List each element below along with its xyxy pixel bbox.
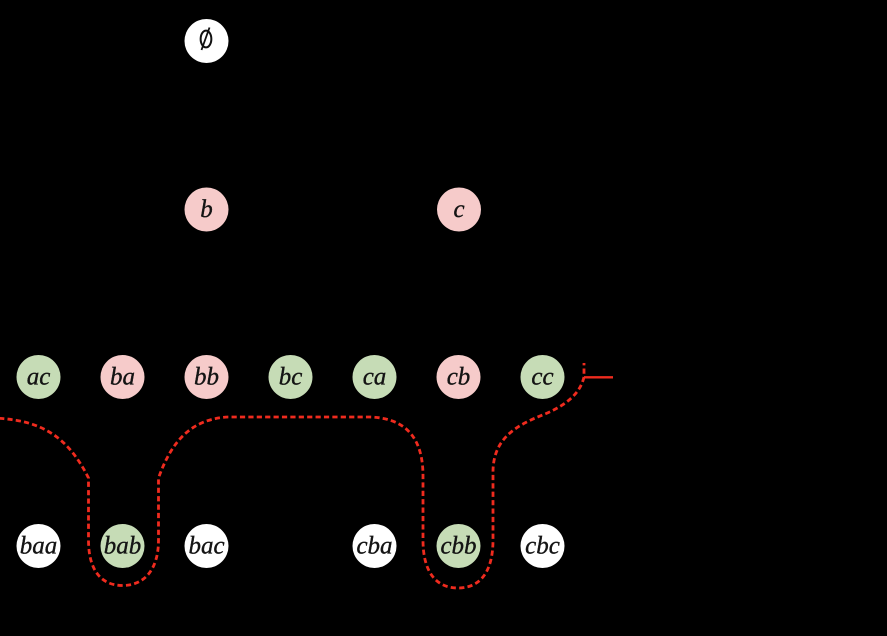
node cb: [437, 355, 481, 399]
node bc: [269, 355, 313, 399]
node cbc: [521, 524, 565, 568]
node cbb: [437, 524, 481, 568]
node c: [437, 188, 481, 232]
svg-text:b: b: [200, 196, 213, 223]
svg-text:bac: bac: [188, 533, 224, 560]
node baa: [17, 524, 61, 568]
svg-text:cba: cba: [356, 533, 392, 560]
node ca: [353, 355, 397, 399]
node bac: [185, 524, 229, 568]
wire: red solid pointer segment: [584, 376, 613, 378]
svg-text:ba: ba: [110, 364, 135, 391]
node bab: [101, 524, 145, 568]
node cc: [521, 355, 565, 399]
svg-text:bb: bb: [194, 364, 219, 391]
svg-text:ca: ca: [363, 364, 387, 391]
node bb: [185, 355, 229, 399]
node b: [185, 188, 229, 232]
svg-text:cb: cb: [447, 364, 471, 391]
node ba: [101, 355, 145, 399]
node root (empty word): [185, 19, 229, 63]
svg-text:bab: bab: [104, 533, 142, 560]
svg-text:c: c: [453, 196, 464, 223]
svg-text:cbc: cbc: [525, 533, 560, 560]
node ac: [17, 355, 61, 399]
node cba: [353, 524, 397, 568]
svg-text:ac: ac: [27, 364, 51, 391]
svg-text:cbb: cbb: [440, 533, 476, 560]
wire: red dashed boundary curve: [0, 363, 584, 588]
svg-text:cc: cc: [531, 364, 553, 391]
svg-text:baa: baa: [20, 533, 58, 560]
svg-text:bc: bc: [279, 364, 303, 391]
